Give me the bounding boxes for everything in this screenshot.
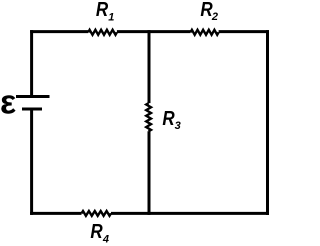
battery plate short (negative) xyxy=(22,108,42,111)
battery plate long (positive) xyxy=(16,95,50,98)
svg-text:2: 2 xyxy=(211,11,218,23)
svg-text:4: 4 xyxy=(102,233,109,245)
wire middle upper segment xyxy=(148,30,151,103)
svg-text:R: R xyxy=(90,220,103,243)
svg-text:ε: ε xyxy=(0,83,16,121)
resistor R1 xyxy=(88,30,117,35)
wire bottom-left segment xyxy=(30,212,81,215)
wire middle lower segment xyxy=(148,131,151,215)
label R2 xyxy=(200,0,213,20)
wire right side xyxy=(266,30,269,215)
wire left upper (battery top lead) xyxy=(30,30,33,96)
wire top-left segment xyxy=(30,30,88,33)
svg-text:R: R xyxy=(162,107,175,130)
label R1 xyxy=(96,0,109,21)
svg-text:1: 1 xyxy=(108,11,114,23)
svg-text:3: 3 xyxy=(175,120,181,132)
label R4 xyxy=(90,220,103,243)
resistor R4 xyxy=(82,211,112,216)
resistor R3 xyxy=(146,103,151,131)
wire top-right segment xyxy=(219,30,269,33)
wire top-middle segment xyxy=(117,30,191,33)
svg-text:R: R xyxy=(96,0,109,21)
resistor R2 xyxy=(191,30,219,35)
wire left lower (battery bottom lead) xyxy=(30,109,33,215)
label R3 xyxy=(162,107,175,130)
wire bottom-right segment xyxy=(111,212,269,215)
